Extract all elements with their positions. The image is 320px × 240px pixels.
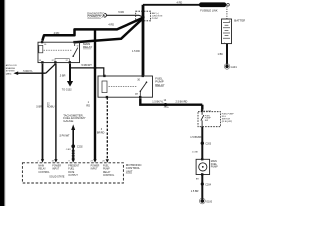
wire ABS feed: [46, 64, 56, 73]
fusible link: [199, 2, 226, 7]
svg-text:SOLID STATE: SOLID STATE: [49, 175, 65, 178]
svg-text:4 RD: 4 RD: [54, 32, 60, 35]
wire power feed vertical to ECM: [94, 29, 96, 160]
svg-text:PUMP: PUMP: [103, 169, 110, 171]
wire fuel pump relay coil feed: [70, 68, 104, 76]
svg-text:G100: G100: [206, 200, 213, 203]
svg-text:(IF EQUIP): (IF EQUIP): [222, 121, 233, 123]
svg-text:UNIT: UNIT: [126, 169, 133, 173]
terminal 86: [103, 75, 105, 77]
svg-text:.5 BR: .5 BR: [36, 106, 42, 109]
svg-text:.5 RD/YL: .5 RD/YL: [23, 70, 34, 73]
terminal 30: [142, 75, 144, 77]
svg-text:87: 87: [66, 60, 68, 62]
svg-text:SW: SW: [205, 120, 208, 122]
relay coil: [39, 45, 43, 52]
ground G100: [201, 199, 205, 203]
svg-text:-: -: [224, 40, 225, 44]
terminal 87: [139, 96, 141, 98]
svg-text:1.5 BK: 1.5 BK: [192, 152, 199, 154]
svg-text:POWER: POWER: [91, 166, 100, 168]
svg-text:4 RD: 4 RD: [108, 23, 114, 26]
svg-text:RELAY: RELAY: [103, 171, 111, 174]
svg-text:RELAY: RELAY: [155, 83, 164, 87]
svg-text:CONTROL: CONTROL: [38, 172, 50, 174]
svg-text:ANTI-LOCK: ANTI-LOCK: [6, 64, 18, 67]
svg-text:BRAKING: BRAKING: [6, 67, 16, 70]
node splice: [141, 16, 144, 19]
wire battery negative: [226, 44, 228, 65]
terminal 85: [106, 96, 108, 98]
wire dotted battery positive: [226, 7, 228, 19]
wire battery main vertical: [142, 5, 145, 76]
svg-text:BR: BR: [196, 178, 199, 180]
wire 4 RD to main relay coil: [42, 18, 142, 41]
connector C203: [201, 142, 204, 145]
svg-text:POINT: POINT: [152, 18, 159, 20]
wire main relay control to ECM: [42, 64, 44, 160]
svg-text:INPUT: INPUT: [91, 169, 98, 171]
wire top feed from fusible link to junction: [143, 4, 201, 6]
svg-text:RD/BU: RD/BU: [47, 106, 55, 109]
ground G102: [67, 81, 73, 87]
svg-text:RATE: RATE: [68, 171, 74, 174]
battery B1: [222, 19, 232, 44]
terminal 30: [73, 41, 75, 43]
arrow to ABS: [13, 71, 18, 75]
svg-text:1.5 BR: 1.5 BR: [191, 190, 199, 193]
wire power input to ECM: [55, 64, 57, 160]
main relay K1: [38, 41, 80, 64]
wire diagnostic to junction: [107, 14, 139, 16]
svg-text:.5 PK/WT: .5 PK/WT: [59, 134, 70, 137]
svg-text:RELAY: RELAY: [83, 45, 92, 49]
wire kill switch to pump: [201, 127, 203, 159]
wire pump to ground: [201, 175, 203, 200]
fuel pump M1: [196, 158, 210, 176]
svg-text:+: +: [229, 19, 231, 23]
svg-text:1.5 BK/YL: 1.5 BK/YL: [152, 100, 164, 103]
svg-text:POWER: POWER: [52, 166, 61, 168]
svg-text:BR/RD: BR/RD: [97, 132, 105, 135]
svg-text:FUEL: FUEL: [68, 169, 75, 171]
svg-text:85: 85: [39, 60, 41, 62]
svg-text:C105: C105: [164, 107, 170, 109]
svg-text:PUMP: PUMP: [211, 166, 218, 169]
arrow to tachometer: [71, 124, 75, 130]
wire battery to main relay contact: [75, 19, 143, 43]
svg-text:G101: G101: [231, 66, 238, 69]
wire down to kill switch: [201, 105, 203, 110]
wire fuel pump feed: [140, 99, 202, 105]
svg-text:1.5 BK/RD: 1.5 BK/RD: [190, 136, 202, 139]
svg-text:RELAY: RELAY: [38, 168, 46, 171]
svg-text:.5 RD/WT: .5 RD/WT: [81, 64, 92, 67]
svg-text:2.5 BK/RD: 2.5 BK/RD: [176, 100, 188, 103]
svg-text:OUTPUT: OUTPUT: [68, 175, 78, 177]
svg-text:.5 BR: .5 BR: [59, 74, 65, 77]
ECM box dashed: [22, 163, 123, 183]
node junction dot: [94, 67, 97, 70]
svg-text:INPUT: INPUT: [52, 169, 59, 171]
ground G101: [225, 65, 228, 68]
svg-text:4 RD: 4 RD: [177, 2, 183, 5]
connector C202: [71, 144, 75, 148]
svg-text:C202: C202: [77, 145, 83, 148]
svg-text:CONTROL: CONTROL: [103, 175, 115, 177]
svg-text:(ABS): (ABS): [6, 72, 12, 75]
pin function labels: [38, 165, 115, 178]
svg-text:30: 30: [77, 45, 79, 47]
page edge bar: [0, 0, 4, 206]
svg-text:87: 87: [52, 60, 54, 62]
wire fuel pump relay control dashed to ECM: [106, 97, 108, 160]
switch blade: [73, 48, 78, 57]
splice S14: [164, 103, 167, 106]
pin numbers main relay: [39, 44, 78, 62]
ECM pin arrows: [41, 159, 44, 162]
svg-text:SYSTEM: SYSTEM: [6, 71, 15, 73]
relay coil: [102, 81, 107, 93]
wire tachometer output to ECM: [72, 130, 74, 161]
switch blade: [140, 83, 146, 92]
svg-text:1 C414: 1 C414: [204, 110, 212, 112]
svg-text:TO G102: TO G102: [62, 88, 72, 91]
svg-text:MAIN: MAIN: [38, 165, 44, 168]
svg-text:86: 86: [44, 44, 46, 46]
svg-text:GAUGE: GAUGE: [63, 119, 73, 123]
svg-text:C203: C203: [205, 142, 211, 145]
svg-text:RD: RD: [86, 105, 90, 108]
wire main relay coil ground: [69, 64, 71, 81]
svg-text:C204: C204: [205, 183, 211, 186]
connector C204: [201, 182, 204, 185]
terminal 87b: [69, 61, 71, 63]
svg-text:BATTERY: BATTERY: [234, 18, 245, 22]
terminal 87: [54, 61, 56, 63]
coiled wire section: [72, 150, 74, 152]
svg-text:FUEL: FUEL: [103, 166, 110, 168]
inner bus line: [55, 59, 69, 63]
svg-text:1.5 RD: 1.5 RD: [132, 50, 140, 53]
svg-text:.5 BR: .5 BR: [66, 149, 72, 151]
contact dashed link: [109, 86, 137, 88]
fuel pump relay K2: [98, 75, 153, 99]
svg-text:FUSIBLE LINK: FUSIBLE LINK: [200, 8, 218, 12]
fuel pump kill switch dashed box: [198, 109, 221, 127]
terminal 85: [41, 61, 43, 63]
svg-text:.5 RD: .5 RD: [118, 11, 125, 14]
terminal 86: [41, 41, 43, 43]
svg-text:PRESENT: PRESENT: [68, 166, 79, 168]
junction box dashed: [136, 11, 151, 21]
contact dashed link: [44, 49, 72, 51]
svg-text:1 BK: 1 BK: [218, 53, 224, 56]
